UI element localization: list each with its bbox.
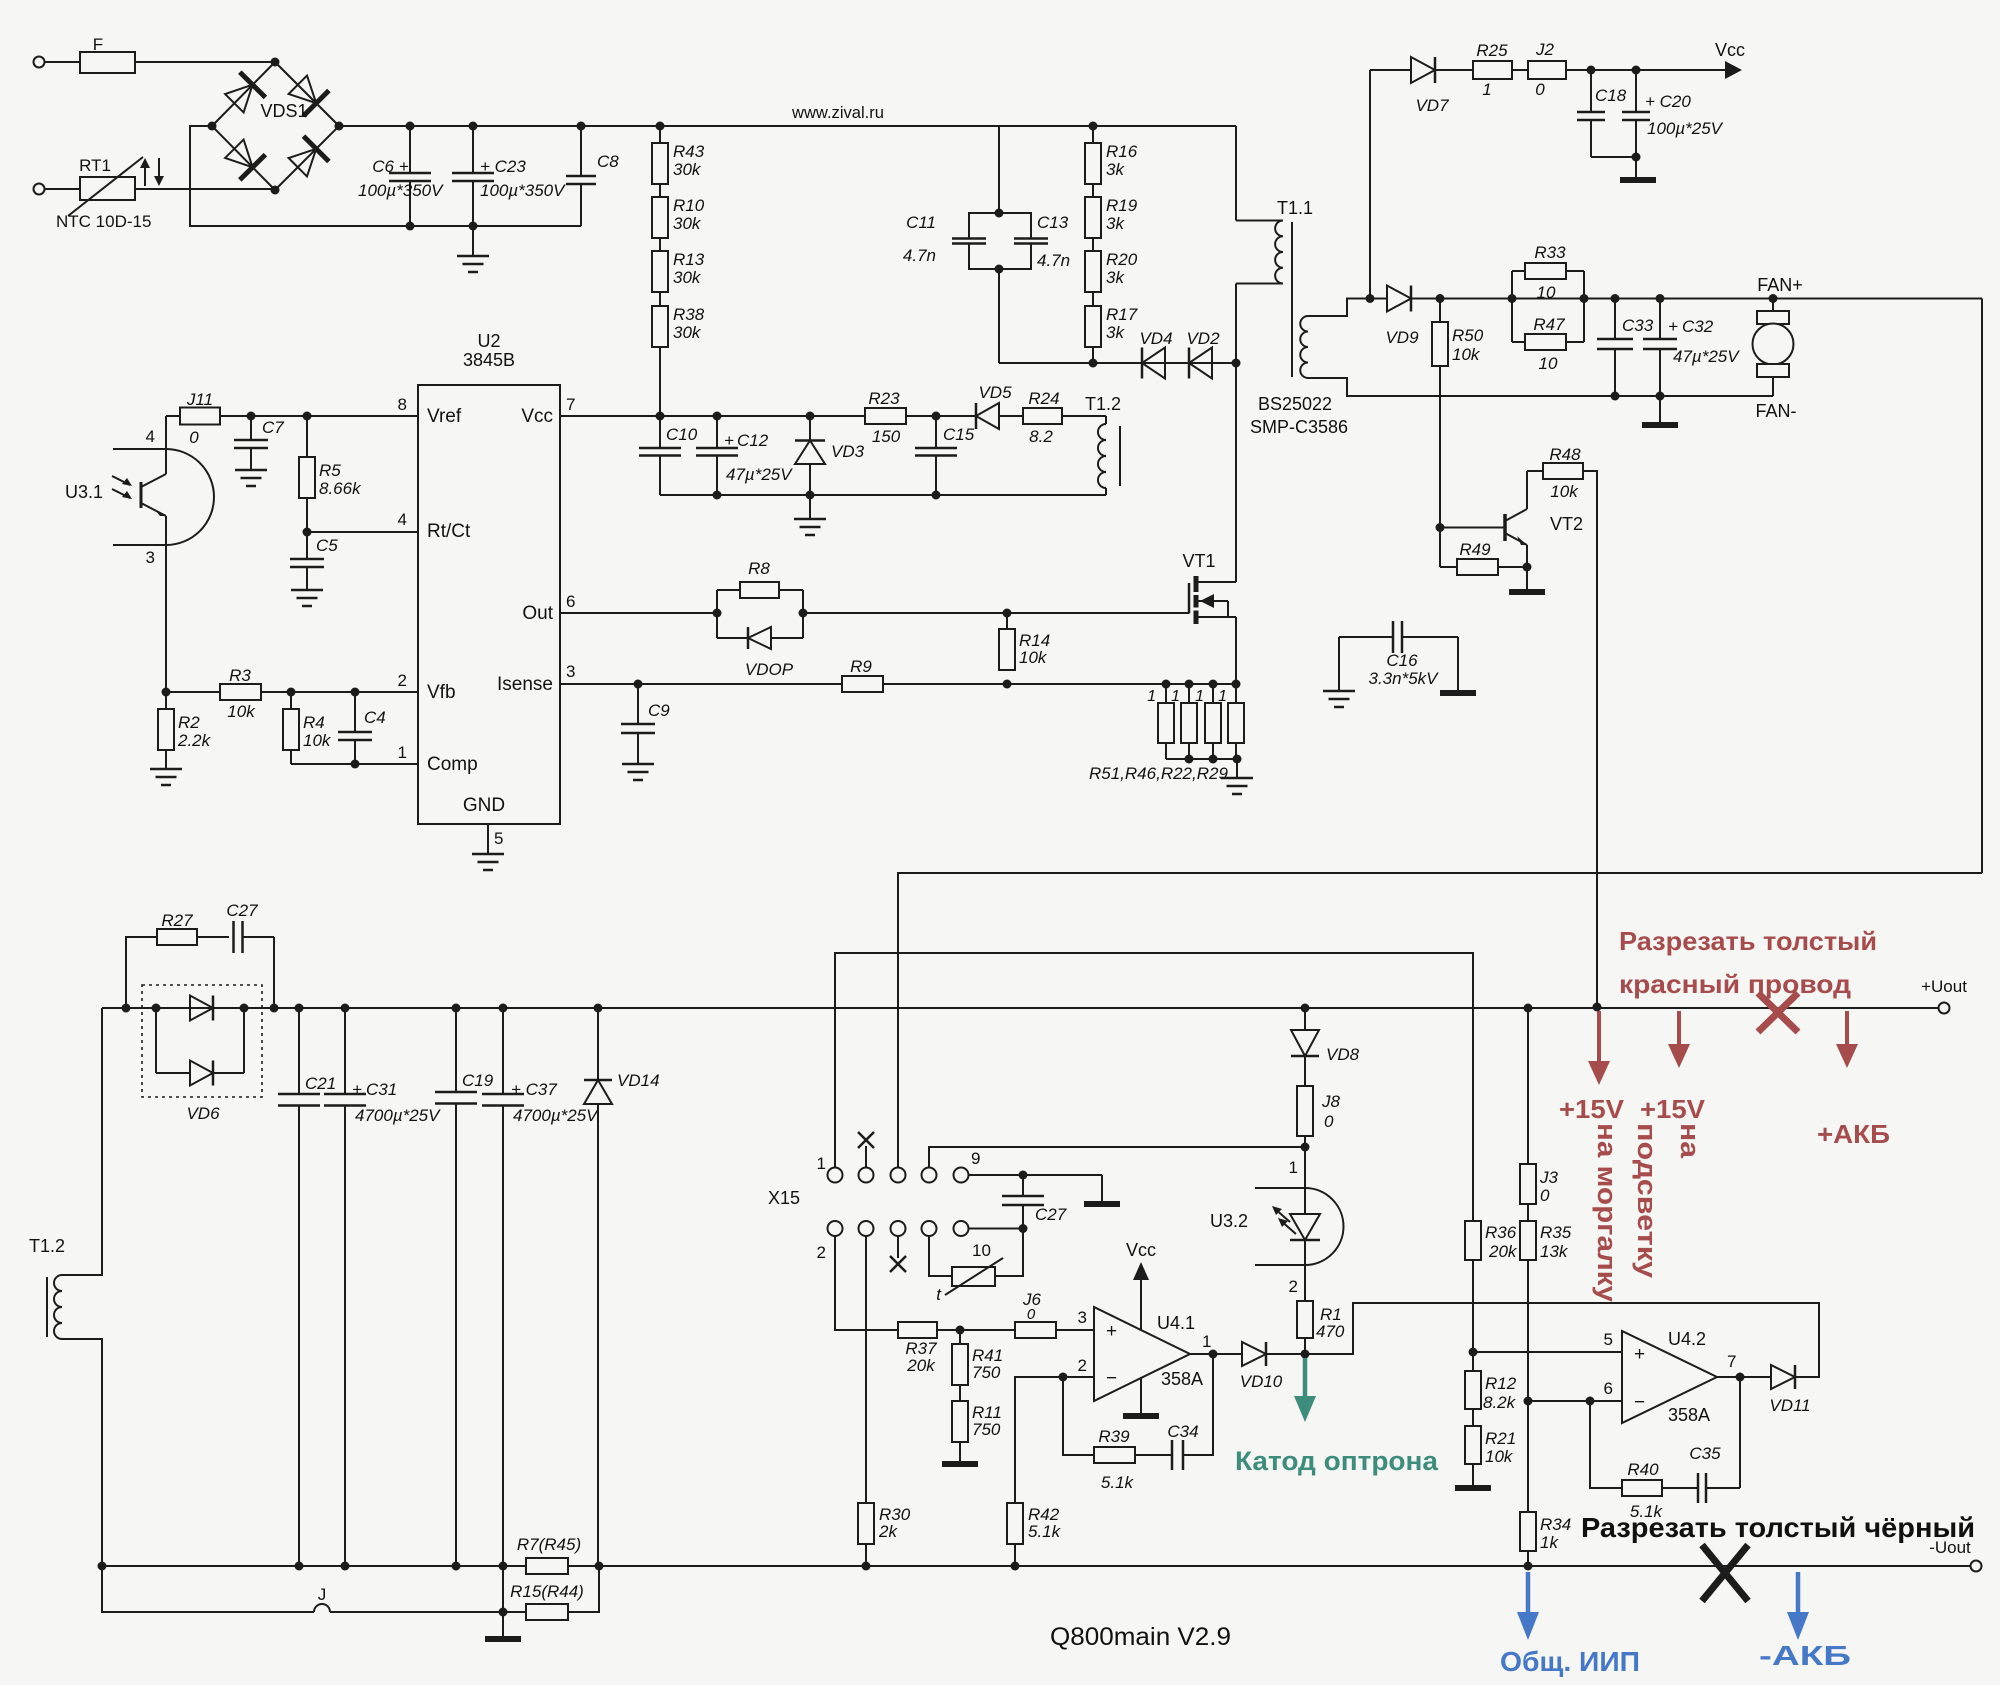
capacitor C16	[1339, 621, 1458, 688]
svg-text:VT1: VT1	[1182, 551, 1215, 571]
svg-text:F: F	[93, 35, 103, 54]
svg-text:0: 0	[1324, 1112, 1334, 1131]
op-amp U2 3845B PWM controller	[398, 331, 576, 848]
svg-text:+: +	[1634, 1344, 1645, 1365]
node: C23 top junction	[469, 122, 478, 131]
resistor R27	[126, 911, 229, 1008]
svg-text:R10: R10	[673, 196, 705, 215]
svg-text:2k: 2k	[878, 1522, 898, 1541]
svg-text:1: 1	[1147, 688, 1156, 705]
node: R4 top junction	[287, 688, 296, 697]
node: bridge top junction	[271, 58, 280, 67]
svg-text:Катод оптрона: Катод оптрона	[1235, 1446, 1439, 1476]
svg-text:J11: J11	[186, 390, 213, 409]
svg-text:−: −	[1106, 1368, 1117, 1389]
svg-text:U2: U2	[477, 331, 500, 351]
wire: VD9 to R33 block	[1410, 298, 1982, 300]
svg-text:+АКБ: +АКБ	[1817, 1119, 1890, 1149]
svg-text:4.7n: 4.7n	[903, 246, 936, 265]
annotation: red arrow to +AKB	[1836, 1011, 1858, 1068]
node: VD14 bottom junction	[595, 1562, 604, 1571]
power: U4.1 Vcc arrow	[1126, 1240, 1156, 1330]
wire: top rail to C11/C13	[998, 126, 1000, 213]
wire: R36 link (y953)	[835, 953, 1473, 1221]
svg-text:VD4: VD4	[1139, 329, 1172, 348]
wire: terminal 2 to RT1	[45, 188, 80, 190]
wire: U3.1 emitter down to Vfb node	[165, 545, 167, 692]
ground: C18/C20 (thick bar)	[1620, 157, 1656, 180]
svg-text:R25: R25	[1476, 41, 1508, 60]
annotation: +15V label 1	[1559, 1094, 1625, 1124]
node: C31 top junction	[341, 1004, 350, 1013]
wire: VD9 node up to VD7	[1369, 70, 1371, 299]
resistor R42	[1007, 1503, 1062, 1544]
svg-text:VD2: VD2	[1186, 329, 1220, 348]
wire: R8 block to VT1 gate	[803, 612, 1189, 614]
annotation: Katod optrona	[1235, 1446, 1439, 1476]
wire: VT2 collector to R48	[1527, 470, 1543, 472]
svg-text:R40: R40	[1627, 1460, 1659, 1479]
svg-text:0: 0	[189, 428, 199, 447]
node: R1/VD10 junction	[1301, 1350, 1310, 1359]
node: R5 top junction	[303, 412, 312, 421]
capacitor C34	[1167, 1422, 1198, 1470]
svg-text:на моргалку: на моргалку	[1592, 1123, 1622, 1302]
svg-text:47µ*25V: 47µ*25V	[726, 465, 793, 484]
resistor R49	[1440, 528, 1527, 576]
node: C23 bottom junction	[469, 222, 478, 231]
svg-text:2: 2	[1289, 1277, 1298, 1296]
diode VD10	[1240, 1342, 1283, 1391]
node: C6 top junction	[406, 122, 415, 131]
ground: C32 (thick bar)	[1642, 396, 1678, 425]
node: bridge bottom junction	[271, 186, 280, 195]
node: sense bank junction 3	[1209, 680, 1218, 689]
resistor R29	[1218, 684, 1244, 759]
svg-text:R38: R38	[673, 305, 705, 324]
svg-text:30k: 30k	[673, 160, 702, 179]
transistor VT1 (MOSFET)	[1182, 551, 1236, 624]
svg-text:U3.1: U3.1	[65, 482, 103, 502]
node: C37 top junction	[499, 1004, 508, 1013]
svg-text:1: 1	[1218, 688, 1227, 705]
thermistor RT1	[56, 156, 151, 231]
svg-text:+Uout: +Uout	[1921, 977, 1967, 996]
svg-text:J3: J3	[1539, 1168, 1559, 1187]
node: C12 bottom junction	[713, 491, 722, 500]
resistor R11	[952, 1385, 1002, 1442]
node: C27 bottom junction (X15)	[1019, 1224, 1028, 1233]
svg-text:C11: C11	[906, 213, 936, 232]
node: FAN+ junction	[1769, 294, 1778, 303]
svg-text:+: +	[1668, 317, 1678, 336]
node: R33/R47 left junction	[1508, 294, 1517, 303]
capacitor C33	[1597, 299, 1654, 397]
svg-text:Vcc: Vcc	[1126, 1240, 1156, 1260]
svg-text:R35: R35	[1540, 1223, 1572, 1242]
node: sense bank junction 4	[1232, 680, 1241, 689]
resistor R8	[717, 559, 803, 638]
svg-text:U4.2: U4.2	[1668, 1329, 1706, 1349]
wire: R13-R38	[659, 292, 661, 306]
svg-text:SMP-C3586: SMP-C3586	[1250, 417, 1348, 437]
svg-text:VDOP: VDOP	[745, 660, 794, 679]
node: VD3 bottom junction	[806, 491, 815, 500]
capacitor C4	[338, 692, 386, 764]
annotation: podsvetku (rotated)	[1632, 1123, 1662, 1278]
svg-text:R50: R50	[1452, 326, 1484, 345]
resistor R51	[1147, 684, 1174, 759]
wire: FAN+ link (y873)	[898, 873, 1982, 1168]
wire: fan bottom rail	[1611, 395, 1773, 397]
wire: R5 to Rt/Ct	[306, 498, 308, 532]
svg-text:10k: 10k	[227, 702, 256, 721]
wire: -Uout rail left	[102, 1565, 526, 1567]
svg-text:1: 1	[1202, 1332, 1211, 1351]
node: C19 bottom junction	[452, 1562, 461, 1571]
svg-text:10: 10	[972, 1241, 991, 1260]
svg-text:+: +	[399, 157, 409, 176]
annotation: -AKB label	[1759, 1640, 1851, 1671]
svg-text:C32: C32	[1682, 317, 1714, 336]
svg-text:VD11: VD11	[1769, 1396, 1810, 1415]
svg-text:8.2k: 8.2k	[1483, 1393, 1517, 1412]
svg-text:1: 1	[1195, 688, 1204, 705]
svg-text:2: 2	[817, 1243, 826, 1262]
annotation: +AKB label	[1817, 1119, 1890, 1149]
svg-text:100µ*350V: 100µ*350V	[358, 181, 444, 200]
symbol: RT1 up/down arrows	[140, 158, 164, 186]
wire: R4 to Comp line	[290, 750, 292, 764]
diode VD6a	[156, 996, 244, 1021]
wire: U4.2 -in line	[1528, 1400, 1622, 1402]
svg-text:C18: C18	[1595, 86, 1627, 105]
svg-text:VD9: VD9	[1385, 328, 1419, 347]
resistor R37	[898, 1322, 937, 1375]
svg-text:R2: R2	[178, 713, 200, 732]
net label: -Uout	[1929, 1538, 1971, 1557]
annotation: cut red wire text	[1619, 926, 1877, 999]
node: snubber right junction	[270, 1004, 279, 1013]
net label: Vcc output arrow	[1715, 40, 1745, 79]
node: R5/C5 junction	[303, 528, 312, 537]
svg-text:9: 9	[971, 1149, 980, 1168]
capacitor C19	[435, 1008, 494, 1566]
diode VD7	[1370, 57, 1449, 115]
capacitor C27 (X15)	[1002, 1175, 1067, 1229]
svg-text:+15V: +15V	[1559, 1094, 1625, 1124]
wire: thermistor to C27 node	[995, 1229, 1023, 1277]
wire: top rail +310V	[339, 125, 1236, 127]
resistor R12	[1465, 1352, 1517, 1412]
wire: U2 pin7 Vcc rail	[560, 415, 865, 417]
svg-text:Разрезать толстый: Разрезать толстый	[1619, 926, 1877, 956]
svg-text:4: 4	[146, 427, 155, 446]
capacitor C27 (snubber)	[226, 901, 274, 1008]
node: C4 top junction	[351, 688, 360, 697]
svg-text:J: J	[318, 1585, 327, 1604]
label: U4.2 pin7	[1727, 1352, 1736, 1371]
svg-text:3845B: 3845B	[463, 350, 515, 370]
wire: base node to VT2	[1440, 527, 1505, 529]
svg-text:C16: C16	[1386, 651, 1418, 670]
node: mains input terminal 1	[34, 57, 45, 68]
node: VD6 right junction	[240, 1004, 249, 1013]
resistor R21	[1465, 1409, 1516, 1466]
capacitor C23	[452, 126, 566, 226]
wire: RT1 to bridge bottom	[135, 188, 275, 190]
transformer T1.2 aux winding	[1085, 394, 1121, 488]
node: sense bank junction 2	[1185, 680, 1194, 689]
diode VD3 (clamp)	[795, 416, 865, 495]
jumper J8	[1297, 1086, 1341, 1136]
wire: R35 to -in node	[1527, 1260, 1529, 1401]
node: R50 top junction	[1436, 294, 1445, 303]
wire: VD11 to U4.1 loop	[1305, 1303, 1819, 1377]
transformer T1.1 secondary winding	[1300, 299, 1611, 397]
wire: X15 pin2 to R37	[835, 1236, 898, 1330]
wire: R50 to VT2 base node	[1439, 366, 1441, 528]
svg-text:Rt/Ct: Rt/Ct	[427, 521, 471, 542]
node: C20 top	[1632, 66, 1641, 75]
ground: R11 (thick bar)	[942, 1442, 978, 1464]
node: C33 top	[1611, 294, 1620, 303]
resistor R2	[158, 692, 212, 750]
svg-text:8.66k: 8.66k	[319, 479, 362, 498]
svg-text:Out: Out	[522, 603, 553, 624]
node: U4.2 -in junction	[1524, 1397, 1533, 1406]
wire: R10-R13	[659, 238, 661, 251]
node: R2/R3 junction	[162, 688, 171, 697]
annotation: Obshchiy IIP label	[1500, 1646, 1640, 1677]
node: R30 bottom junction	[862, 1562, 871, 1571]
resistor R38	[652, 305, 705, 347]
node: C19 top junction	[452, 1004, 461, 1013]
wire: bridge left to bottom rail	[190, 126, 581, 226]
op-amp U4.1	[1094, 1307, 1203, 1401]
svg-text:www.zival.ru: www.zival.ru	[791, 103, 884, 122]
svg-text:10: 10	[1539, 354, 1558, 373]
node: bridge right junction	[335, 122, 344, 131]
svg-text:C8: C8	[597, 152, 619, 171]
ground: U4.1 (thick bar)	[1123, 1378, 1159, 1416]
resistor R20	[1085, 250, 1138, 292]
wire: R34 to -Uout rail	[1527, 1551, 1529, 1566]
svg-text:J8: J8	[1321, 1092, 1341, 1111]
connector X15	[768, 1149, 991, 1262]
svg-text:U3.2: U3.2	[1210, 1211, 1248, 1231]
resistor R41	[952, 1330, 1003, 1385]
core: T1.2 aux	[1119, 426, 1121, 486]
capacitor C13	[999, 213, 1070, 270]
diode VD6b	[156, 1008, 244, 1086]
node: C31 bottom junction	[341, 1562, 350, 1571]
capacitor C18	[1577, 70, 1636, 157]
annotation: na (rotated)	[1675, 1123, 1705, 1159]
svg-text:R3: R3	[229, 666, 251, 685]
svg-text:на: на	[1675, 1123, 1705, 1159]
svg-text:NTC 10D-15: NTC 10D-15	[56, 212, 151, 231]
wire: sense bank bottom bus	[1166, 758, 1237, 760]
node: C12 top junction	[713, 412, 722, 421]
resistor R34	[1520, 1512, 1571, 1552]
svg-text:5.1k: 5.1k	[1028, 1522, 1062, 1541]
svg-text:358A: 358A	[1161, 1369, 1203, 1389]
node: VT2 emitter junction	[1523, 563, 1532, 572]
wire: FAN+ rail to right edge and down	[1981, 299, 1983, 874]
wire: U4.1 -in line	[1015, 1377, 1094, 1503]
resistor R4	[283, 692, 332, 750]
label: U4.2 pin5	[1604, 1330, 1613, 1349]
wire: top rail to R16	[1092, 126, 1094, 143]
wire: feedback R39/C34	[1063, 1354, 1213, 1455]
wire: C11/C13 to snubber line	[998, 269, 1000, 363]
svg-text:4700µ*25V: 4700µ*25V	[513, 1106, 599, 1125]
jumper J6	[1015, 1290, 1056, 1338]
node: U4.2 +in junction	[1469, 1348, 1478, 1357]
wire: Out pin 6 line	[560, 612, 717, 614]
annotation: blue arrow Obshchiy IIP	[1517, 1572, 1539, 1640]
ground: C5	[291, 590, 323, 606]
svg-text:R16: R16	[1106, 142, 1138, 161]
svg-text:0: 0	[1540, 1186, 1550, 1205]
zener VD14	[584, 1008, 660, 1566]
svg-text:R8: R8	[748, 559, 770, 578]
diode VD9	[1366, 286, 1419, 348]
capacitor C10	[639, 416, 698, 495]
wire: T1.2 aux bottom to return rail	[660, 488, 1106, 495]
wire: X15 pin9 to C27	[969, 1174, 1103, 1176]
svg-text:5.1k: 5.1k	[1101, 1473, 1135, 1492]
node: C7 top junction	[247, 412, 256, 421]
ground: X15 pin9 (thick bar)	[1084, 1175, 1120, 1204]
wire: C10 bottom corner	[659, 456, 661, 496]
node: C27 top junction (X15)	[1019, 1171, 1028, 1180]
optocoupler U3.1 phototransistor	[65, 416, 214, 567]
ground: VT2 emitter (thick bar)	[1509, 567, 1545, 592]
annotation: Q800main V2.9	[1050, 1623, 1231, 1651]
resistor R43	[652, 142, 705, 184]
svg-text:10k: 10k	[1019, 648, 1048, 667]
svg-text:R9: R9	[850, 657, 872, 676]
resistor R47	[1512, 271, 1584, 373]
svg-text:4700µ*25V: 4700µ*25V	[355, 1106, 441, 1125]
wire: R20-R17	[1092, 292, 1094, 306]
svg-text:3k: 3k	[1106, 323, 1125, 342]
svg-text:R27: R27	[161, 911, 193, 930]
svg-text:750: 750	[972, 1363, 1001, 1382]
node: VD6 left junction	[152, 1004, 161, 1013]
ground: C7	[235, 470, 267, 486]
resistor R23	[865, 389, 906, 446]
wire: U4.2 +in line	[1473, 1351, 1622, 1353]
label: R51,R46,R22,R29	[1089, 764, 1228, 783]
node: R41 top junction	[956, 1326, 965, 1335]
node: R15/ground junction	[499, 1608, 508, 1617]
node: VD9 anode junction	[1366, 294, 1375, 303]
label: BS25022 SMP-C3586	[1250, 394, 1348, 437]
ground: sense bank	[1221, 759, 1253, 794]
svg-text:T1.2: T1.2	[29, 1236, 65, 1256]
node: C18 top	[1587, 66, 1596, 75]
resistor R15(R44)	[510, 1582, 584, 1620]
node: C33 bottom	[1611, 392, 1620, 401]
svg-text:R13: R13	[673, 250, 705, 269]
ground: R21 (thick bar)	[1455, 1464, 1491, 1488]
node: R8 block right junction	[799, 609, 808, 618]
svg-text:R48: R48	[1549, 445, 1581, 464]
wire: R25 to J2	[1512, 69, 1528, 71]
svg-text:7: 7	[1727, 1352, 1736, 1371]
svg-text:Vref: Vref	[427, 406, 462, 427]
svg-text:C12: C12	[737, 431, 769, 450]
capacitor C9	[621, 684, 670, 764]
capacitor C11	[903, 213, 999, 269]
node: C10 top junction	[656, 412, 665, 421]
wire: R19-R20	[1092, 238, 1094, 251]
svg-text:30k: 30k	[673, 323, 702, 342]
node: sense bank junction 1	[1162, 680, 1171, 689]
svg-text:4.7n: 4.7n	[1037, 251, 1070, 270]
core: T1.1	[1291, 222, 1293, 377]
node: R34 bottom junction	[1524, 1562, 1533, 1571]
svg-text:8: 8	[398, 395, 407, 414]
svg-text:R36: R36	[1485, 1223, 1517, 1242]
svg-text:C5: C5	[316, 536, 338, 555]
svg-text:6: 6	[1604, 1379, 1613, 1398]
svg-text:C34: C34	[1167, 1422, 1198, 1441]
wire: top rail to R43	[659, 126, 661, 143]
svg-text:R49: R49	[1459, 540, 1491, 559]
wire: +Uout rail to T1.2 secondary	[62, 1008, 102, 1275]
thermistor t	[936, 1258, 1003, 1304]
annotation: blue arrow -AKB	[1787, 1572, 1809, 1640]
capacitor C37	[482, 1008, 599, 1566]
svg-text:1: 1	[1482, 80, 1491, 99]
transformer T1.2 output winding	[29, 1236, 65, 1339]
svg-text:Isense: Isense	[497, 674, 553, 695]
svg-text:5: 5	[1604, 1330, 1613, 1349]
capacitor C21	[278, 1008, 336, 1566]
wire: X15 pin7 to U3.2 node	[929, 1147, 1305, 1168]
wire: R42 to -Uout rail	[1014, 1544, 1016, 1566]
annotation: red arrow to podsvetka	[1668, 1011, 1690, 1068]
node: R14 bottom junction	[1003, 680, 1012, 689]
svg-text:R47: R47	[1533, 315, 1565, 334]
resistor R22	[1195, 684, 1221, 759]
fuse F	[80, 35, 135, 73]
node: snubber/drain junction	[1232, 359, 1241, 368]
ground: Vcc return rail	[794, 495, 826, 535]
svg-text:R33: R33	[1534, 243, 1566, 262]
node: R42 bottom junction	[1011, 1562, 1020, 1571]
resistor R17	[1085, 305, 1138, 347]
svg-text:3k: 3k	[1106, 268, 1125, 287]
ground: C9	[622, 764, 654, 780]
wire: X15 pin4 to R30	[865, 1236, 867, 1503]
node: C6 bottom junction	[406, 222, 415, 231]
capacitor C35	[1689, 1444, 1721, 1503]
node: R17/snubber junction	[1089, 359, 1098, 368]
svg-text:6: 6	[566, 592, 575, 611]
svg-text:7: 7	[566, 395, 575, 414]
node: VT2 base junction	[1436, 523, 1445, 532]
svg-text:VT2: VT2	[1550, 514, 1583, 534]
node: U4.1 feedback junction	[1209, 1350, 1218, 1359]
jumper J wire	[102, 1566, 526, 1612]
resistor R30	[858, 1503, 911, 1544]
svg-text:подсветку: подсветку	[1632, 1123, 1662, 1278]
